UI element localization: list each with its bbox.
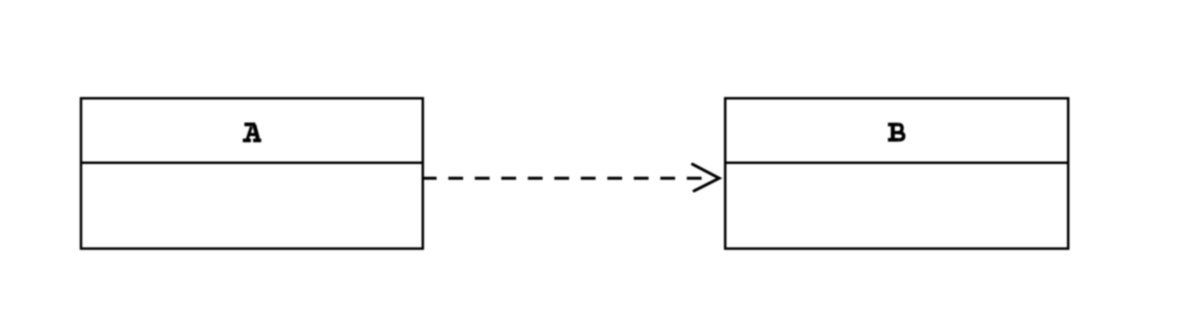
- dashed dependency arrow shaft from A to B: [422, 177, 702, 180]
- divider line of class A: [81, 161, 423, 164]
- divider line of class B: [725, 162, 1068, 165]
- class box A: [81, 98, 423, 248]
- label A (courier-bold style glyph): [243, 124, 261, 140]
- label B (courier-bold style glyph): [888, 124, 904, 141]
- open arrowhead pointing at B: [693, 164, 720, 191]
- class box B: [725, 98, 1068, 248]
